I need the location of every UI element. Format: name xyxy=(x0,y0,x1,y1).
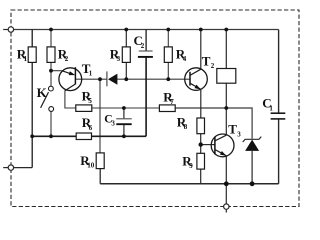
svg-text:3: 3 xyxy=(111,120,115,128)
svg-text:2: 2 xyxy=(141,42,145,50)
svg-text:2: 2 xyxy=(65,55,69,63)
wire C2 top lead xyxy=(145,30,147,51)
wire relay bottom lead xyxy=(225,83,227,108)
wire top-left terminal stub xyxy=(3,29,8,31)
wire R5 to R7 (mid wire y108) xyxy=(92,107,160,109)
terminal bottom-center xyxy=(224,204,229,209)
svg-text:5: 5 xyxy=(88,97,92,105)
dashed enclosure border xyxy=(11,10,299,207)
wire right rail upper (to C1) xyxy=(278,30,280,113)
wire T1 emitter lead xyxy=(51,70,62,72)
wire R3 top lead xyxy=(125,30,127,47)
node top rail R4 xyxy=(166,28,170,32)
zener diode D2 xyxy=(243,137,262,151)
capacitor C1 xyxy=(262,95,285,119)
resistor R1 xyxy=(17,46,36,63)
resistor R7 xyxy=(159,90,175,112)
wire T3 emitter down to bottom rail xyxy=(225,156,227,184)
terminal top-left xyxy=(8,27,13,32)
wire switch lower contact down to mid rail xyxy=(50,112,52,137)
node T1 base / diode cathode xyxy=(98,77,102,81)
transistor T3 (NPN) xyxy=(211,122,241,157)
svg-text:T: T xyxy=(202,53,211,68)
wire T2 collector to top rail xyxy=(200,30,202,70)
svg-text:2: 2 xyxy=(211,62,215,70)
node mid rail switch xyxy=(49,134,53,138)
resistor R8 xyxy=(177,114,205,133)
wire bottom-left terminal stub xyxy=(3,167,8,169)
wire R10 bottom lead to bottom rail xyxy=(99,169,101,184)
wire node to switch upper contact xyxy=(50,71,52,86)
wire R1 top lead xyxy=(31,30,33,47)
wire top rail xyxy=(14,29,279,31)
wire C3 top lead xyxy=(123,108,125,118)
node diode anode / R3 xyxy=(124,77,128,81)
node R2/T1 emitter junction xyxy=(49,69,53,73)
capacitor C2 xyxy=(134,33,153,57)
resistor R2 xyxy=(47,46,69,63)
wire bottom rail to bottom terminal xyxy=(225,184,227,204)
node C3 bottom xyxy=(122,134,126,138)
wire C3 bottom lead xyxy=(123,125,125,137)
wire T3 collector xyxy=(225,108,227,135)
switch K xyxy=(37,85,54,112)
wire R2 top lead xyxy=(50,30,52,47)
svg-text:4: 4 xyxy=(183,55,187,63)
svg-text:T: T xyxy=(228,122,237,137)
svg-text:3: 3 xyxy=(117,55,121,63)
wire relay top lead xyxy=(225,30,227,69)
node mid rail R1 column xyxy=(30,134,34,138)
svg-text:7: 7 xyxy=(170,98,174,106)
wire T2 emitter down to R8 xyxy=(200,89,202,118)
node top rail R2 xyxy=(49,28,53,32)
node R8/R9/T3 base xyxy=(199,142,203,146)
svg-text:8: 8 xyxy=(184,123,188,131)
wire node to T3 base xyxy=(201,144,215,146)
wire R2 bottom lead to node xyxy=(50,62,52,70)
relay coil xyxy=(217,69,236,84)
resistor R6 xyxy=(76,115,92,139)
node top rail relay xyxy=(224,28,228,32)
diode D1 (cathode bar toward T1 base) xyxy=(107,71,118,86)
node relay / T3 collector xyxy=(224,106,228,110)
svg-text:1: 1 xyxy=(24,55,28,63)
wire R4 bottom lead xyxy=(167,62,169,79)
resistor R10 xyxy=(80,153,104,170)
wire T1 collector to R5 xyxy=(65,91,76,108)
node top rail R3 xyxy=(124,28,128,32)
svg-text:3: 3 xyxy=(237,130,241,138)
wire R4 top lead xyxy=(167,30,169,47)
wire R6 mid rail y136 left part xyxy=(32,135,76,137)
node bottom rail T3 emitter xyxy=(224,181,229,186)
wire R6 mid rail y136 right part to C2 column xyxy=(92,135,147,137)
wire R7 to zener corner (y108) xyxy=(175,108,252,139)
wire left column x32 (R1 bottom to bottom-left terminal) xyxy=(31,62,33,167)
wire T1 base node column down to R10 xyxy=(99,79,101,153)
wire R9 bottom lead xyxy=(200,169,202,184)
wire R3 bottom lead xyxy=(125,62,127,79)
svg-text:1: 1 xyxy=(269,105,273,113)
wire R8 bottom lead xyxy=(200,134,202,145)
terminal bottom-left xyxy=(8,165,13,170)
resistor R3 xyxy=(110,46,131,63)
svg-text:1: 1 xyxy=(89,70,93,78)
resistor R5 xyxy=(76,89,93,112)
node R4 / T2 base wire xyxy=(166,77,170,81)
node top rail T2 collector xyxy=(199,28,203,32)
svg-text:10: 10 xyxy=(87,162,95,170)
node bottom rail zener xyxy=(250,181,255,186)
transistor T1 (PNP) xyxy=(59,61,93,91)
wire R9 top lead xyxy=(200,145,202,154)
wire diode to T2 base xyxy=(117,78,190,80)
resistor R4 xyxy=(164,47,187,64)
wire right rail lower (C1 to bottom) xyxy=(278,120,280,184)
node C3 top xyxy=(122,106,126,110)
svg-text:6: 6 xyxy=(89,124,93,132)
wire C2 column (bottom plate down to y136) xyxy=(145,57,147,136)
wire bottom-left terminal to left column xyxy=(14,167,33,169)
wire bottom terminal stub xyxy=(225,209,227,212)
resistor R9 xyxy=(182,153,204,170)
wire zener bottom lead xyxy=(251,151,253,184)
wire T1 base to diode xyxy=(75,78,107,80)
capacitor C3 xyxy=(104,113,132,127)
wire bottom rail xyxy=(100,183,278,185)
svg-text:K: K xyxy=(37,85,48,100)
transistor T2 (NPN) xyxy=(185,53,215,90)
svg-text:9: 9 xyxy=(189,162,193,170)
